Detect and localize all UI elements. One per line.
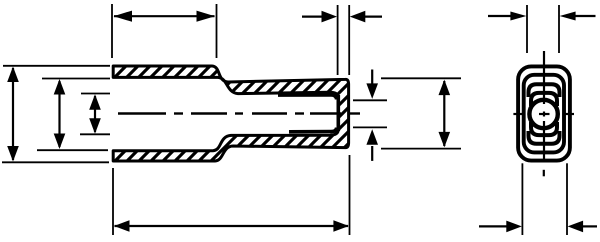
centerline segment 8 [348, 112, 360, 114]
dimension opening width arrowhead left-pointing [560, 12, 576, 21]
dimension bore diameter arrowhead up [89, 94, 101, 110]
extension line spring bore bottom [353, 126, 387, 128]
end view vertical centerline center dash [543, 112, 545, 117]
centerline dash 6 [295, 112, 304, 114]
extension line inner bottom [37, 149, 108, 151]
extension line end view shell left [521, 163, 523, 235]
extension line outer top [3, 65, 110, 67]
dimension outer diameter arrowhead up [7, 67, 19, 83]
dimension skirt length shaft [114, 15, 215, 17]
dimension overall length arrowhead right [333, 220, 349, 232]
end view spring coil arc top outer [529, 84, 560, 97]
dimension opening width left shaft [488, 15, 512, 17]
extension line overall length right [349, 155, 351, 235]
dimension spring bore upper shaft [371, 70, 373, 85]
end view inner shell [524, 75, 564, 153]
extension line skirt left [111, 4, 113, 58]
extension line small cyl outer top [381, 77, 461, 79]
end view vertical centerline upper [543, 51, 545, 104]
centerline dash 4 [235, 112, 243, 114]
extension line bore bottom [80, 133, 110, 135]
dimension end wall left shaft [302, 16, 328, 18]
cap body section outline [113, 66, 348, 161]
dimension shell width left shaft [479, 225, 507, 227]
extension line outer bottom [2, 161, 109, 163]
dimension opening width arrowhead right-pointing [510, 12, 526, 21]
extension line spring bore top [353, 99, 387, 101]
dimension end wall right shaft [359, 16, 382, 18]
end view outer shell [518, 66, 570, 160]
centerline segment 7 [310, 112, 341, 114]
dimension inner diameter arrowhead up [54, 79, 66, 95]
dimension spring bore arrowhead up-pointing [366, 129, 378, 145]
dimension inner diameter arrowhead down [54, 134, 66, 150]
extension line end view shell right [566, 163, 568, 235]
end view horizontal centerline right [564, 113, 574, 115]
cap body section wall (white fill) [113, 66, 348, 161]
extension line end view opening left [526, 5, 528, 53]
extension line inner top [42, 78, 110, 80]
dimension opening width right shaft [574, 15, 596, 17]
dimension bore diameter arrowhead down [89, 118, 101, 134]
dimension overall length arrowhead left [114, 220, 130, 232]
dimension small cyl diameter arrowhead down [439, 132, 451, 148]
dimension shell width arrowhead left-pointing [568, 221, 584, 233]
extension line overall length left [112, 168, 114, 235]
dimension skirt length arrowhead left [114, 11, 133, 22]
end view spring center ring [529, 100, 557, 128]
spring insert top edge [278, 95, 337, 100]
dimension outer diameter shaft [12, 68, 14, 160]
dimension small cyl diameter arrowhead up [439, 80, 451, 96]
dimension shell width right shaft [582, 225, 597, 227]
extension line end wall inner [337, 5, 339, 75]
dimension overall length shaft [115, 225, 349, 227]
centerline segment 1 [118, 112, 166, 114]
dimension bore diameter shaft [94, 96, 96, 132]
dimension inner diameter shaft [58, 81, 60, 147]
dimension spring bore lower shaft [371, 146, 373, 161]
dimension skirt length arrowhead right [197, 11, 216, 22]
dimension shell width arrowhead right-pointing [506, 221, 522, 233]
end view spring coil arc bottom inner [531, 122, 557, 135]
spring insert bottom edge [289, 128, 337, 132]
extension line end view opening right [558, 5, 560, 53]
extension line skirt right [216, 4, 218, 58]
dimension small cyl diameter shaft [443, 81, 445, 146]
end view spring coil arc bottom outer [529, 131, 560, 144]
section hatching [100, 55, 360, 175]
extension line bore top [81, 93, 110, 95]
dimension end wall arrowhead right-pointing [322, 11, 338, 23]
dimension spring bore arrowhead down-pointing [366, 83, 378, 99]
extension line small cyl outer bottom [381, 148, 461, 150]
extension line end wall outer [348, 5, 350, 75]
cavity end face [336, 95, 340, 131]
centerline segment 5 [252, 112, 287, 114]
end view horizontal centerline center dash [539, 113, 550, 115]
centerline dash 2 [174, 112, 183, 114]
end view vertical centerline lower [543, 121, 545, 162]
dimension outer diameter arrowhead down [7, 146, 19, 162]
centerline segment 3 [191, 112, 227, 114]
dimension end wall arrowhead left-pointing [350, 11, 366, 23]
end view spring coil arc top inner [531, 93, 557, 106]
end view vertical centerline bottom dash [543, 170, 545, 177]
end view horizontal centerline left [513, 113, 525, 115]
